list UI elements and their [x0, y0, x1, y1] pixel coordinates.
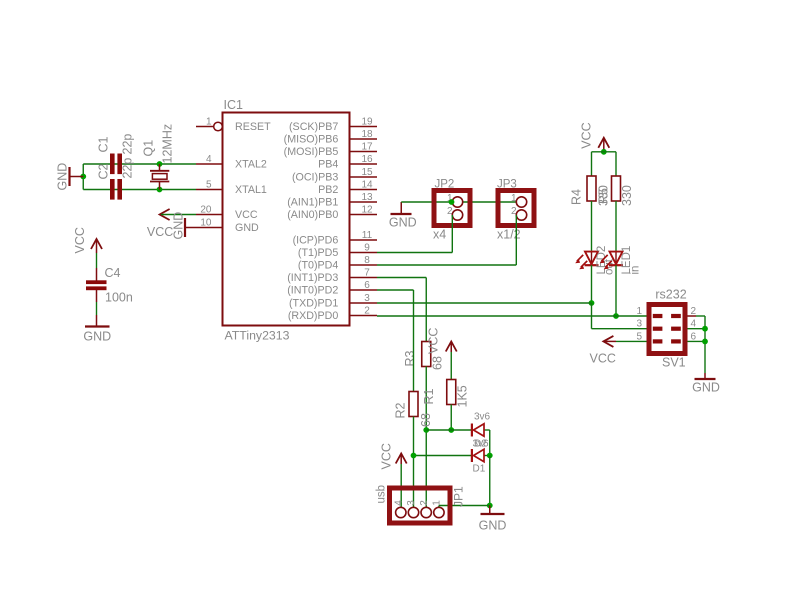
- supply VCC arrow SV1 pin5: [603, 336, 613, 347]
- wire VCC split: [592, 151, 617, 153]
- svg-text:(MISO)PB6: (MISO)PB6: [284, 134, 339, 146]
- diode D2 zener 3v6: [471, 424, 473, 437]
- svg-text:GND: GND: [172, 212, 186, 240]
- SV1 pin bar row 0: [653, 314, 663, 318]
- svg-text:VCC: VCC: [147, 225, 173, 239]
- junction dot JP1 pin1 GND: [487, 503, 493, 509]
- svg-text:(AIN0)PB0: (AIN0)PB0: [287, 209, 338, 221]
- svg-text:100n: 100n: [105, 291, 133, 305]
- wire JP3 pin2 to PD4: [515, 215, 517, 265]
- junction dot D1 GND rail: [487, 453, 493, 459]
- IC1 pin 12 (AIN0)PB0: [350, 214, 378, 216]
- wire XTAL2 net: [83, 163, 196, 165]
- wire XTAL1 net: [83, 189, 196, 191]
- svg-text:(T1)PD5: (T1)PD5: [298, 247, 338, 259]
- svg-text:9: 9: [364, 243, 370, 254]
- wire zener D1 row: [414, 455, 472, 457]
- wire SV1 pin6: [688, 340, 706, 342]
- junction dot R1 zener row: [448, 427, 454, 433]
- svg-text:C1: C1: [97, 136, 111, 152]
- svg-text:(OCI)PB3: (OCI)PB3: [292, 172, 338, 184]
- svg-text:R4: R4: [570, 189, 584, 205]
- wire VCC to C4: [96, 239, 98, 253]
- wire C4 to GND: [96, 290, 98, 302]
- junction dot R3 zener row: [423, 427, 429, 433]
- supply VCC arrow JP1 pin4: [396, 454, 407, 464]
- junction dot pin4 GND rail: [702, 326, 708, 332]
- connector JP1 usb box: [390, 488, 451, 523]
- wire R4 to LED2: [591, 201, 593, 251]
- svg-text:JP2: JP2: [435, 179, 455, 191]
- wire LED1 to PD0 net: [615, 265, 617, 316]
- svg-text:R2: R2: [394, 402, 408, 418]
- diode D1 zener 3v6: [471, 449, 473, 462]
- svg-text:(INT1)PD3: (INT1)PD3: [287, 272, 338, 284]
- IC1 pin 1 RESET: [196, 126, 214, 128]
- svg-text:Q1: Q1: [142, 140, 156, 157]
- svg-text:68: 68: [419, 413, 433, 427]
- svg-text:18: 18: [361, 129, 373, 140]
- svg-text:D2: D2: [474, 439, 487, 450]
- wire R2 to JP1 pin3: [413, 417, 415, 513]
- supply VCC arrow R1: [446, 342, 457, 352]
- wire PD2 to R2: [377, 289, 414, 291]
- svg-text:12: 12: [361, 205, 373, 216]
- svg-text:SV1: SV1: [662, 356, 686, 370]
- IC1 pin 10 GND: [196, 227, 223, 229]
- svg-text:15: 15: [361, 167, 373, 178]
- wire SV1 pin4: [688, 328, 706, 330]
- junction dot pin6 GND rail: [702, 339, 708, 345]
- svg-text:(INT0)PD2: (INT0)PD2: [287, 285, 338, 297]
- svg-text:GND: GND: [479, 519, 507, 533]
- ground GND crystal: [70, 176, 83, 178]
- svg-text:GND: GND: [389, 216, 417, 230]
- svg-text:22p: 22p: [121, 134, 135, 155]
- resistor R2 68: [409, 392, 418, 417]
- IC1 pin 6 (INT0)PD2: [350, 289, 378, 291]
- wire SV1 pin2 to GND rail: [688, 315, 697, 317]
- junction dot LED1 PD0: [613, 313, 619, 319]
- svg-text:4: 4: [206, 154, 212, 165]
- wire JP2 pin2 to PD5: [451, 215, 453, 253]
- svg-text:(TXD)PD1: (TXD)PD1: [289, 298, 338, 310]
- svg-text:10: 10: [200, 217, 212, 228]
- svg-text:(RXD)PD0: (RXD)PD0: [288, 310, 339, 322]
- svg-text:JP3: JP3: [497, 179, 517, 191]
- svg-text:x4: x4: [433, 228, 446, 242]
- svg-text:PB4: PB4: [318, 159, 338, 171]
- svg-text:VCC: VCC: [580, 122, 594, 148]
- svg-text:VCC: VCC: [73, 227, 87, 253]
- svg-text:rs232: rs232: [655, 288, 686, 302]
- wire PD1 from IC: [377, 302, 592, 304]
- ground GND C4: [85, 325, 110, 327]
- wire R1 to zener row: [450, 405, 452, 431]
- svg-text:RESET: RESET: [235, 121, 271, 133]
- wire GND rail down: [489, 456, 491, 506]
- IC1 pin 2 (RXD)PD0: [350, 315, 378, 317]
- supply VCC arrow C4 branch: [91, 239, 102, 249]
- junction dot LED2 PD1: [589, 300, 595, 306]
- svg-text:68: 68: [431, 356, 445, 370]
- ground GND SV1: [704, 373, 706, 379]
- svg-text:XTAL1: XTAL1: [235, 184, 267, 196]
- IC1 pin 8 (T0)PD4: [350, 264, 378, 266]
- svg-text:C2: C2: [97, 163, 111, 179]
- LED LED1: [615, 251, 617, 265]
- svg-text:3v6: 3v6: [474, 412, 491, 423]
- wire zener D2 row: [426, 429, 471, 431]
- svg-text:ATTiny2313: ATTiny2313: [225, 329, 290, 343]
- svg-text:GND: GND: [56, 163, 70, 191]
- svg-text:R5: R5: [597, 188, 611, 204]
- wire PD3 to R3: [377, 277, 426, 279]
- svg-text:3: 3: [364, 293, 370, 304]
- svg-text:17: 17: [361, 142, 373, 153]
- LED LED2: [591, 251, 593, 265]
- junction dot R2 zener row: [411, 453, 417, 459]
- svg-text:(ICP)PD6: (ICP)PD6: [293, 235, 339, 247]
- svg-text:7: 7: [364, 268, 370, 279]
- connector JP3 box: [498, 191, 534, 226]
- junction dot JP2 pin1: [449, 199, 455, 205]
- resistor R4 330: [587, 176, 596, 201]
- svg-text:20: 20: [200, 204, 212, 215]
- SV1 pin bar row 1: [653, 327, 663, 331]
- svg-text:C4: C4: [105, 266, 121, 280]
- capacitor C1: [110, 154, 115, 175]
- wire PD0 from IC to SV1 pin1: [377, 315, 647, 317]
- svg-text:13: 13: [361, 192, 373, 203]
- IC1 pin 7 (INT1)PD3: [350, 277, 378, 279]
- svg-text:4: 4: [394, 500, 405, 506]
- svg-text:8: 8: [364, 255, 370, 266]
- resistor R5 330: [612, 176, 621, 201]
- junction dot crystal top: [157, 161, 163, 167]
- capacitor C4 100n: [86, 280, 107, 284]
- wire R5 to LED1: [615, 201, 617, 251]
- svg-text:VCC: VCC: [380, 443, 394, 469]
- svg-text:1K5: 1K5: [456, 385, 470, 407]
- svg-text:in: in: [630, 266, 642, 275]
- svg-text:XTAL2: XTAL2: [235, 159, 267, 171]
- wire LED2 down to SV1 pin3: [591, 303, 593, 329]
- svg-text:VCC: VCC: [427, 328, 441, 354]
- ground GND jumper net: [400, 202, 402, 214]
- svg-text:VCC: VCC: [235, 209, 258, 221]
- connector SV1 rs232 box: [649, 305, 685, 354]
- wire left vertical: [82, 164, 84, 190]
- connector JP2 box: [434, 191, 470, 226]
- wire D2 down to D1 row: [489, 430, 491, 456]
- svg-text:GND: GND: [83, 330, 111, 344]
- ground GND pin10: [185, 227, 196, 229]
- supply VCC arrow LED branch: [598, 138, 609, 148]
- IC1 pin 17 (MOSI)PB5: [350, 151, 378, 153]
- svg-text:GND: GND: [692, 381, 720, 395]
- svg-text:(SCK)PB7: (SCK)PB7: [289, 121, 338, 133]
- IC1 pin 5 XTAL1: [196, 189, 223, 191]
- svg-text:R3: R3: [403, 350, 417, 366]
- svg-text:19: 19: [361, 117, 373, 128]
- crystal Q1 12MHz: [159, 164, 161, 171]
- supply VCC pin20 arrow: [160, 209, 170, 220]
- junction dot GND tap: [80, 174, 86, 180]
- IC1 pin 16 PB4: [350, 163, 378, 165]
- svg-text:D1: D1: [473, 464, 486, 475]
- svg-text:16: 16: [361, 154, 373, 165]
- svg-text:12MHz: 12MHz: [161, 124, 175, 164]
- svg-text:R1: R1: [422, 388, 436, 404]
- IC1 pin 11 (ICP)PD6: [350, 239, 378, 241]
- capacitor C2: [110, 179, 115, 200]
- IC U1 ATTiny2313 body: [223, 113, 350, 326]
- svg-text:GND: GND: [235, 222, 259, 234]
- svg-text:2: 2: [419, 500, 430, 506]
- svg-text:(AIN1)PB1: (AIN1)PB1: [287, 197, 338, 209]
- svg-text:1: 1: [636, 306, 642, 317]
- IC1 pin 4 XTAL2: [196, 163, 223, 165]
- junction dot VCC split: [601, 149, 607, 155]
- IC1 pin 14 PB2: [350, 189, 378, 191]
- svg-text:6: 6: [364, 280, 370, 291]
- SV1 pin bar row 2: [653, 339, 663, 343]
- IC1 pin 13 (AIN1)PB1: [350, 201, 378, 203]
- svg-text:22p: 22p: [121, 158, 135, 179]
- svg-text:11: 11: [362, 230, 373, 241]
- IC1 pin 3 (TXD)PD1: [350, 302, 378, 304]
- svg-text:(MOSI)PB5: (MOSI)PB5: [284, 146, 339, 158]
- svg-text:usb: usb: [376, 485, 388, 504]
- svg-text:JP1: JP1: [452, 486, 466, 507]
- IC1 pin 15 (OCI)PB3: [350, 176, 378, 178]
- IC1 pin 20 VCC: [196, 214, 223, 216]
- IC1 pin 9 (T1)PD5: [350, 252, 378, 254]
- svg-text:PB2: PB2: [318, 184, 338, 196]
- svg-text:VCC: VCC: [590, 352, 616, 366]
- svg-text:3: 3: [406, 500, 417, 506]
- junction dot crystal bottom: [157, 187, 163, 193]
- svg-text:5: 5: [206, 179, 212, 190]
- svg-text:IC1: IC1: [224, 98, 244, 112]
- svg-text:x1/2: x1/2: [497, 228, 521, 242]
- svg-text:3: 3: [636, 319, 642, 330]
- svg-text:1: 1: [206, 116, 212, 127]
- resistor R1 1K5: [447, 380, 456, 405]
- wire LED2 to PD1 net: [591, 265, 593, 303]
- svg-text:2: 2: [364, 306, 370, 317]
- ground GND JP1: [489, 506, 491, 514]
- svg-text:14: 14: [361, 180, 373, 191]
- resistor R3 68: [422, 342, 431, 367]
- svg-text:330: 330: [620, 185, 634, 206]
- wire R3 to JP1 pin2: [425, 367, 427, 513]
- IC1 pin 19 (SCK)PB7: [350, 126, 378, 128]
- IC1 pin 18 (MISO)PB6: [350, 138, 378, 140]
- svg-text:(T0)PD4: (T0)PD4: [298, 260, 338, 272]
- svg-text:1: 1: [432, 500, 443, 506]
- wire JP1 pin1 to GND rail: [439, 505, 490, 507]
- wire GND to JP2 JP3 pin1: [401, 201, 517, 203]
